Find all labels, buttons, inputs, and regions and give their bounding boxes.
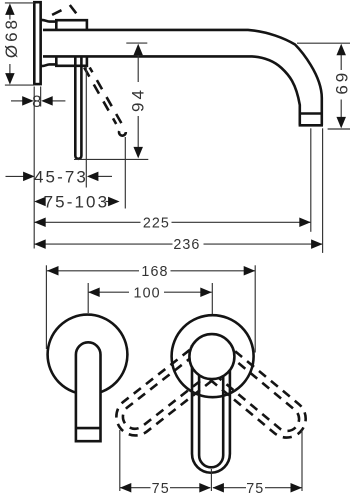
dim 100: left arrowhead <box>88 287 100 297</box>
lever rotated position (dashed) line 2 <box>90 68 122 124</box>
spout outer edge (top line + bend) <box>43 30 322 125</box>
dim 100: right arrowhead <box>200 287 212 297</box>
svg-text:75-103: 75-103 <box>44 193 110 212</box>
dim Ø68: top arrowhead <box>5 3 15 15</box>
dim 75 left: left arrowhead <box>120 483 132 493</box>
spout centerline tick (94 top reference) <box>126 42 147 44</box>
dim 100: dimension line <box>88 291 129 293</box>
dim 225: right extension line (aerator center) <box>310 128 312 232</box>
spout tube (front view) <box>76 342 101 441</box>
leader line left (dashed tip) <box>119 430 121 491</box>
dim 168: left arrowhead <box>47 266 59 276</box>
dim 8: right extension line <box>40 87 42 107</box>
dim 8: left arrow <box>11 100 24 102</box>
dim 69: bottom arrowhead <box>336 117 346 128</box>
svg-text:100: 100 <box>134 285 161 301</box>
dim 100: right extension line <box>211 283 213 315</box>
dim 100: left extension line <box>87 283 89 313</box>
aerator joint line <box>299 112 322 115</box>
svg-text:Ø68: Ø68 <box>2 17 21 58</box>
lever handle (solid, hanging down) <box>75 58 81 159</box>
dim Ø68: bottom arrowhead <box>5 73 15 85</box>
dim 94: bottom arrowhead <box>133 147 143 159</box>
dashed swing arc dash 2 <box>70 5 77 14</box>
dim 168: left extension line <box>45 265 47 349</box>
wall plate (escutcheon, side view) <box>34 2 40 84</box>
dim 75 right: right arrowhead <box>291 483 303 493</box>
dim 75 left: dimension line <box>120 487 151 489</box>
dim Ø68: dimension line <box>9 14 11 20</box>
lever loop (solid, hanging) outer outline <box>192 345 230 473</box>
dim Ø68: top extension line <box>5 2 34 4</box>
handle hub (covers loop tops) <box>189 334 234 379</box>
dim 225: dimension line <box>34 221 140 223</box>
dim 236: dimension line <box>34 243 172 245</box>
dim 236: right arrowhead <box>311 239 323 249</box>
left escutcheon (spout rosette) <box>48 315 128 395</box>
dashed tip extension line (75-103 right) <box>124 137 126 209</box>
lever loop rotated left (dashed) <box>109 350 213 443</box>
wall face extension line (left reference) <box>33 87 35 249</box>
dim 168: right extension line <box>254 265 256 352</box>
dim 75-103: right arrowhead <box>106 201 109 203</box>
spout aerator line (front) <box>76 427 101 430</box>
dim 225: left arrowhead <box>34 218 46 228</box>
lever rotated position (dashed) line 1 <box>84 68 116 125</box>
svg-text:75: 75 <box>246 481 264 497</box>
dim Ø68: bottom extension line <box>5 84 34 86</box>
right escutcheon (handle rosette) <box>172 315 254 397</box>
dim 75 right: dimension line <box>213 487 246 489</box>
dim 69: top arrowhead <box>336 44 346 56</box>
body divider line top <box>55 20 58 29</box>
dim 75 left: right arrowhead <box>199 483 211 493</box>
dim 94: dimension line <box>137 55 139 82</box>
dim 236: left arrowhead <box>34 239 46 249</box>
dim 69: dimension line <box>340 55 342 70</box>
lever rotated tip hook <box>119 131 126 136</box>
dim 69: top extension line (spout centerline) <box>297 42 350 44</box>
svg-text:168: 168 <box>141 264 168 280</box>
svg-text:75: 75 <box>152 481 170 497</box>
faucet body below spout <box>42 57 87 66</box>
svg-text:225: 225 <box>143 215 170 231</box>
dim 236: right extension line (spout outer edge) <box>322 128 324 253</box>
dim 69: bottom extension line <box>328 128 350 130</box>
dim 8: right arrow <box>52 100 65 102</box>
outlet bottom face <box>299 124 323 127</box>
dim 168: right arrowhead <box>244 266 256 276</box>
dashed swing arc dash 1 <box>52 10 62 15</box>
body front edge extension line (45-73 right) <box>85 67 87 188</box>
faucet body above spout <box>42 20 87 29</box>
dim 45-73: left arrow <box>6 175 25 177</box>
spout inner edge (bottom line + bend) <box>43 56 300 125</box>
dim 225: right arrowhead <box>299 218 311 228</box>
svg-text:236: 236 <box>173 237 200 253</box>
svg-text:69: 69 <box>332 70 351 95</box>
dim 45-73: right arrow <box>97 175 112 177</box>
leader line right (dashed tip) <box>301 430 303 491</box>
dim 75 right: left arrowhead <box>212 483 224 493</box>
lever tip reference line (94 bottom) <box>74 158 148 160</box>
lever loop inner outline <box>199 345 223 467</box>
svg-text:94: 94 <box>129 87 148 112</box>
dim 75-103: left arrowhead <box>34 197 46 207</box>
leader line center <box>210 469 212 491</box>
lever loop rotated right (dashed) <box>210 351 313 446</box>
svg-text:45-73: 45-73 <box>34 168 88 187</box>
dim 94: top arrowhead <box>133 44 143 56</box>
body divider line bottom <box>55 57 58 66</box>
dim 168: dimension line <box>47 270 139 272</box>
